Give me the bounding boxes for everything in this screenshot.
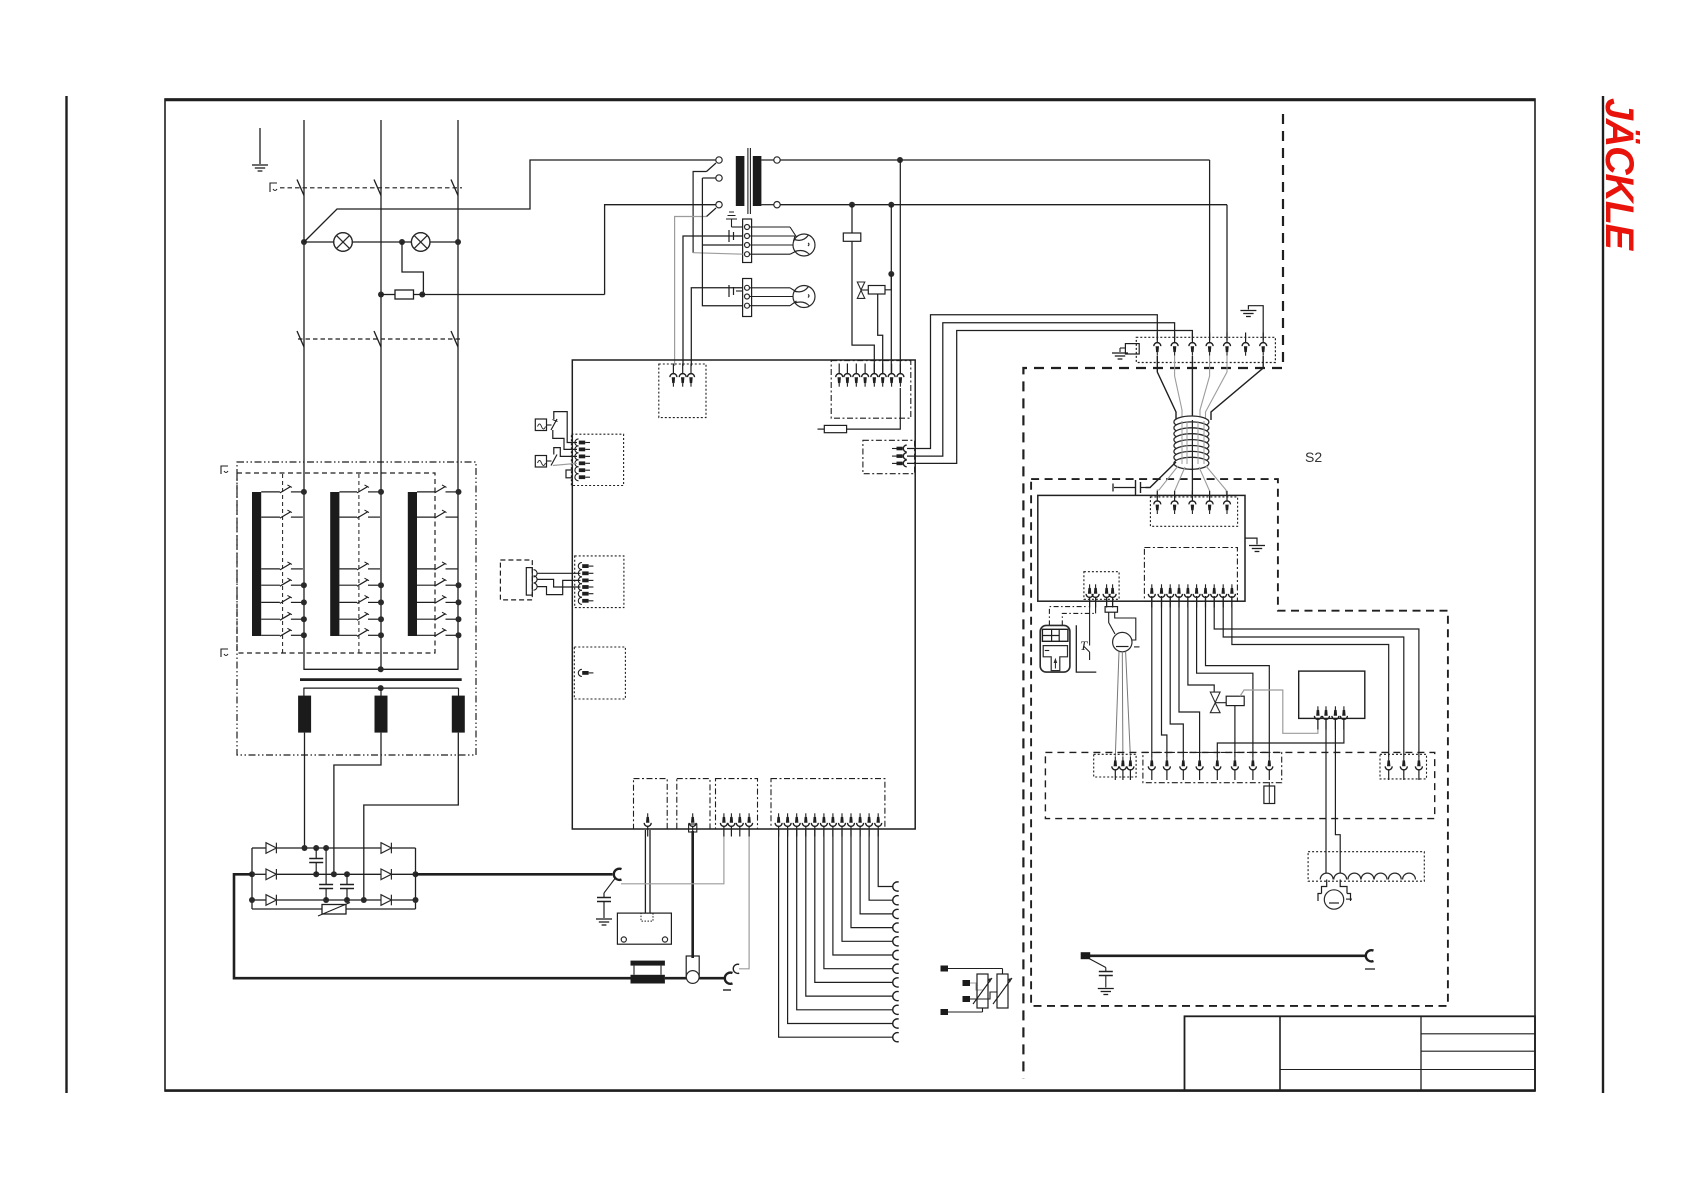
T1 unit 1 tap 4 lever bbox=[280, 580, 291, 587]
output hook terminal + bbox=[614, 869, 622, 880]
hook terminal X10-10 bbox=[893, 909, 899, 918]
wire X13-1 down bbox=[1151, 596, 1153, 757]
fan terminal strip 1 bbox=[743, 219, 752, 263]
B2 lead bbox=[547, 460, 552, 462]
node T1 unit 1 tap 7 bbox=[301, 632, 307, 638]
wire lamp row to control bbox=[304, 160, 716, 242]
T1 unit 3 tap 1 wire bbox=[417, 491, 435, 493]
harness bottom wire 5 bbox=[1206, 466, 1227, 498]
wire X3 pin3 to S2 connector bbox=[907, 331, 1192, 464]
wire X3 pin1 to S2 connector bbox=[907, 315, 1157, 449]
connector X4 pin bbox=[575, 439, 590, 446]
wire X13-7 down bbox=[1206, 596, 1270, 757]
control bus 24V bbox=[780, 159, 1209, 161]
motor housing right bbox=[1340, 880, 1347, 894]
wire contact1 lever to fan supply bbox=[693, 172, 706, 253]
node rect bot right bbox=[413, 897, 419, 903]
X11 ground left bbox=[1120, 347, 1125, 349]
X11 pin7 ground wire bbox=[1248, 306, 1263, 340]
torch strip pin bbox=[1266, 757, 1273, 780]
fan M1 bbox=[793, 234, 815, 256]
T1 unit 3 tap 7 wire bbox=[417, 634, 435, 636]
motor terminal tick bbox=[1346, 898, 1352, 900]
connector X14 pin bbox=[1109, 584, 1116, 607]
connector X8 pin bbox=[689, 813, 696, 836]
connector X13 pin bbox=[1167, 584, 1174, 607]
signal wire X10-10 bbox=[860, 830, 893, 914]
current sensor box bbox=[617, 913, 671, 944]
T1 unit 2 tap 6 link bbox=[368, 618, 380, 620]
torch shield capacitor bbox=[1105, 968, 1107, 972]
wire resistor to X2 pin5 bbox=[852, 241, 874, 374]
connector X2 pin bbox=[871, 364, 878, 387]
frame bottom edge bbox=[165, 1089, 1535, 1091]
T1 unit 3 tap 7 link bbox=[446, 634, 458, 636]
node lamp row mid bbox=[399, 239, 405, 245]
motor housing bracket bbox=[1318, 894, 1322, 902]
node lamp row L3 bbox=[455, 239, 461, 245]
T1 unit 1 tap 2 link bbox=[291, 516, 303, 518]
node T1 unit 2 tap 7 bbox=[378, 632, 384, 638]
secondary star rail bbox=[303, 687, 458, 689]
node T1 unit 2 tap 6 bbox=[378, 616, 384, 622]
harness bottom wire 1 bbox=[1157, 466, 1178, 498]
sensor pad left bbox=[621, 937, 626, 942]
strip2 contact bbox=[745, 303, 750, 308]
connector X14 pin bbox=[1103, 584, 1110, 607]
torch board connector X12 dotted box bbox=[1150, 497, 1237, 526]
wire fuse row to transformer contact bbox=[605, 205, 716, 295]
torch cable terminal square bbox=[1081, 952, 1091, 959]
T1 unit 1 tap 2 wire bbox=[261, 516, 280, 518]
T1 unit 2 tap 2 link bbox=[368, 516, 380, 518]
wire secondary3 to rectifier bbox=[364, 733, 459, 900]
thick positive output wire bbox=[416, 873, 613, 876]
T1 unit 1 tap 3 link bbox=[291, 568, 303, 570]
resistor R3 on board bbox=[818, 428, 825, 430]
connector X5 pin bbox=[578, 577, 593, 584]
connector X2 pin bbox=[879, 364, 886, 387]
connector X12 pin bbox=[1206, 491, 1213, 514]
motor housing left bbox=[1322, 880, 1327, 894]
control transformer left contact 3 bbox=[716, 202, 722, 208]
secondary stub 3 bbox=[458, 688, 460, 696]
connector X11 pin bbox=[1206, 333, 1213, 356]
capacitor C2 bbox=[325, 848, 327, 885]
connector X6 pin bbox=[578, 669, 593, 676]
T1 unit 3 tap 6 link bbox=[446, 618, 458, 620]
rectifier right rail bbox=[415, 848, 417, 909]
connector X10 pin bbox=[857, 813, 864, 836]
harness connector X11 dotted box bbox=[1136, 337, 1275, 362]
rectifier bottom rail bbox=[252, 899, 266, 901]
resistor R2 bbox=[843, 233, 861, 241]
T1 unit 1 tap 6 lever bbox=[280, 614, 291, 621]
wire X3 pin2 to S2 connector bbox=[907, 323, 1175, 456]
T1 unit 1 tap 5 link bbox=[291, 601, 303, 603]
title block row line b bbox=[1421, 1050, 1535, 1052]
T1 unit 1 tap 6 wire bbox=[261, 618, 280, 620]
tap switch bracket bottom bbox=[221, 649, 228, 657]
transformer right contact top bbox=[774, 157, 780, 163]
varistor terminal sq4 bbox=[941, 1009, 949, 1015]
lamp H1 bbox=[334, 233, 353, 252]
ground torch shield bbox=[1098, 989, 1114, 995]
connector X13 pin bbox=[1148, 584, 1155, 607]
node fuse row right bbox=[419, 292, 425, 298]
sensor signal pair wire b bbox=[649, 830, 651, 913]
node rect mid left bbox=[249, 871, 255, 877]
connector X13 pin bbox=[1184, 584, 1191, 607]
wire feed motor M3 bbox=[1324, 890, 1343, 909]
node rect mid c3 bbox=[344, 871, 350, 877]
X4 jumper block bbox=[566, 470, 572, 478]
heater element dotted box bbox=[1308, 852, 1424, 882]
B1 lever serif bbox=[553, 420, 558, 422]
wire bus1 into X11 pin4 bbox=[1209, 160, 1211, 340]
connector X2 pin bbox=[888, 364, 895, 387]
wire secondary bottom stub bbox=[761, 204, 773, 206]
T1 unit 1 tap 1 lever bbox=[280, 486, 291, 493]
electrode wire ferrule bbox=[689, 824, 697, 832]
wire X13-6 down bbox=[1197, 596, 1253, 757]
gas valve Y1 bowtie bbox=[857, 282, 865, 298]
lamp row wire bbox=[304, 241, 458, 243]
connector X12 pin bbox=[1171, 491, 1178, 514]
torch strip pin bbox=[1249, 757, 1256, 780]
B1 lead bbox=[547, 424, 552, 426]
ground at X11 pin7 bbox=[1240, 311, 1256, 317]
T1 unit 3 tap 5 link bbox=[446, 601, 458, 603]
node bus2 x852 bbox=[849, 202, 855, 208]
node T1 unit 3 tap 5 bbox=[456, 599, 462, 605]
connector X9 pin bbox=[736, 813, 743, 836]
rectifier bottom return bbox=[252, 908, 322, 910]
page frame border bbox=[165, 99, 1535, 1091]
hook terminal X10-8 bbox=[893, 937, 899, 946]
T1 unit 3 tap 2 wire bbox=[417, 516, 435, 518]
poti connector pin bbox=[1112, 757, 1119, 780]
connector X4 pin bbox=[575, 460, 590, 467]
connector X3 pin 1 bbox=[892, 445, 907, 452]
signal wire X10-5 bbox=[815, 830, 893, 982]
harness wire 2 bbox=[1175, 356, 1182, 420]
T1 unit 2 tap 4 wire bbox=[339, 584, 357, 586]
transformer T1 primary winding bar 3 bbox=[408, 492, 417, 636]
wire X13-8 to plug3 bbox=[1214, 596, 1419, 757]
connector X10 pin bbox=[866, 813, 873, 836]
harness bottom wire 3 bbox=[1191, 465, 1193, 498]
capacitor C3 bbox=[346, 874, 348, 884]
trigger plug shape bbox=[1043, 646, 1067, 671]
connector X13 pin bbox=[1158, 584, 1165, 607]
signal wire X10-7 bbox=[833, 830, 893, 955]
connector X13 pin bbox=[1228, 584, 1235, 607]
tap switch bracket top bbox=[221, 466, 228, 474]
wire X14 pin3 to trimmer bbox=[1106, 598, 1108, 607]
connector X9 pin bbox=[746, 813, 753, 836]
heater element coils bbox=[1320, 873, 1333, 879]
hook terminal X10-12 bbox=[893, 882, 899, 891]
B1 switch lever bbox=[551, 419, 557, 430]
wire X13-2 down bbox=[1162, 596, 1167, 757]
torch strip pin bbox=[1163, 757, 1170, 780]
torch valve Y2 bowtie bbox=[1210, 692, 1220, 713]
wire X14 pin4 to trimmer bbox=[1112, 598, 1114, 607]
secondary winding bar 1 bbox=[298, 696, 311, 733]
title block outline bbox=[1185, 1016, 1536, 1090]
hook terminal X10-9 bbox=[893, 923, 899, 932]
connector X2 pin bbox=[836, 364, 843, 387]
connector X12 pin bbox=[1224, 491, 1231, 514]
wire mid branch to fuse row bbox=[402, 242, 423, 295]
coil inner wires bbox=[1181, 421, 1183, 464]
transformer core bar bbox=[300, 678, 462, 681]
strip1 contact bbox=[745, 252, 750, 257]
node rect top c2 bbox=[323, 845, 329, 851]
shunt link right bbox=[660, 966, 662, 975]
wire X14 pin2 bbox=[1095, 598, 1097, 613]
T1 unit 1 tap 6 link bbox=[291, 618, 303, 620]
plug connector pin bbox=[1400, 757, 1407, 780]
secondary winding bar 3 bbox=[452, 696, 465, 733]
connector X1 pin 1 bbox=[670, 364, 677, 387]
connector X11 pin bbox=[1224, 333, 1231, 356]
wire X13-10 to plug1 bbox=[1232, 596, 1389, 757]
wire X13-9 to plug2 bbox=[1223, 596, 1404, 757]
heater feed wire b bbox=[1335, 718, 1340, 873]
signal wire X10-2 bbox=[788, 830, 893, 1024]
connector X2 pin bbox=[897, 364, 904, 387]
wire trimmer loop to wiper bbox=[1115, 612, 1136, 640]
plug connector dotted box bbox=[1380, 754, 1427, 779]
connector X6 dotted box bbox=[574, 647, 625, 699]
title block row line c bbox=[1280, 1069, 1535, 1071]
title block divider 2 bbox=[1420, 1016, 1422, 1090]
B2 switch lever bbox=[551, 455, 557, 466]
connector X11 pin bbox=[1189, 333, 1196, 356]
gray wire B2 to X4 pin4 bbox=[553, 463, 577, 465]
main switch S0 dashed link bbox=[280, 187, 462, 189]
switch lever bbox=[1084, 646, 1090, 652]
phase wire L1 bbox=[303, 120, 305, 669]
main switch S0 bracket bbox=[270, 183, 277, 192]
electrode thick wire bbox=[691, 831, 694, 958]
wire switch to bracket foot bbox=[1089, 652, 1091, 660]
node T1 unit 3 tap 4 bbox=[456, 582, 462, 588]
shunt bar upper bbox=[631, 961, 665, 966]
wire strip1 pin2 feed bbox=[683, 236, 743, 366]
switch row2 pole L3 bbox=[451, 331, 458, 347]
control transformer left contact 2 bbox=[716, 175, 722, 181]
signal wire X10-3 bbox=[797, 830, 893, 1010]
T1 unit 3 tap 3 wire bbox=[417, 568, 435, 570]
signal wire X10-4 bbox=[806, 830, 893, 996]
torch board ground bbox=[1245, 538, 1257, 544]
strip1 contact bbox=[745, 225, 750, 230]
connector X2 pin bbox=[844, 364, 851, 387]
T1 unit 2 tap 5 link bbox=[368, 601, 380, 603]
T1 unit 2 tap 5 wire bbox=[339, 601, 357, 603]
harness wire 1 bbox=[1157, 356, 1176, 420]
switch pole L2 bbox=[374, 180, 381, 196]
signal wire X10-9 bbox=[851, 830, 893, 928]
connector X2 pin bbox=[862, 364, 869, 387]
node T1 unit 3 tap 7 bbox=[456, 632, 462, 638]
connector X10 dotted box bbox=[771, 779, 885, 829]
T1 unit 3 tap 3 link bbox=[446, 568, 458, 570]
torch switch bracket bbox=[1076, 625, 1096, 672]
node rect mid right bbox=[413, 871, 419, 877]
node T1 unit 2 tap 5 bbox=[378, 599, 384, 605]
sub board (wire feed control) bbox=[1299, 671, 1365, 718]
transformer T1 primary winding bar 1 bbox=[252, 492, 261, 636]
torch board connector X14 dotted box bbox=[1084, 572, 1119, 600]
gray sense wire a bbox=[621, 830, 724, 884]
transformer T1 primary winding bar 2 bbox=[330, 492, 339, 636]
shield cap terminal tick bbox=[1112, 484, 1114, 492]
connector X13 pin bbox=[1202, 584, 1209, 607]
torch cable shield cap wire bbox=[1089, 959, 1106, 968]
connector X9 pin bbox=[728, 813, 735, 836]
wire trimmer to poti bbox=[1109, 612, 1115, 634]
rectifier mid rail bbox=[252, 873, 266, 875]
connector X10 pin bbox=[820, 813, 827, 836]
varistor wiring bbox=[948, 968, 1003, 970]
torch board outline bbox=[1038, 495, 1245, 601]
sensor pad right bbox=[662, 937, 667, 942]
hook terminal X10-4 bbox=[893, 992, 899, 1001]
strip pin8 fuse bbox=[1268, 782, 1270, 786]
connector X12 pin bbox=[1189, 491, 1196, 514]
connector X10 pin bbox=[811, 813, 818, 836]
wire fuse row bbox=[381, 294, 395, 296]
T1 unit 2 tap 2 lever bbox=[357, 512, 368, 518]
poti trimmer block bbox=[1105, 607, 1117, 613]
wire hook to shield cap bbox=[604, 879, 615, 894]
connector X3 dotted box bbox=[863, 440, 915, 473]
phase wire L3 bbox=[457, 120, 459, 669]
fan M2 bbox=[793, 286, 815, 308]
tap coupling dashed line 2 bbox=[358, 474, 360, 653]
varistor RV1 bbox=[322, 905, 346, 915]
strip2 contact bbox=[745, 294, 750, 299]
T1 unit 1 tap 4 link bbox=[291, 584, 303, 586]
node primary star bbox=[378, 666, 384, 672]
varistor RV2 bbox=[977, 974, 988, 1008]
control transformer left contact 1 bbox=[716, 157, 722, 163]
sub board pin bbox=[1314, 706, 1321, 729]
harness shield drain wire bbox=[1146, 462, 1177, 488]
shunt link left bbox=[633, 966, 635, 975]
potentiometer R10 bbox=[1113, 632, 1132, 651]
diode D3b bbox=[381, 895, 391, 906]
node rect mid c1 bbox=[313, 871, 319, 877]
wire bus1 down to X2 pin8 bbox=[899, 160, 901, 374]
connector X10 pin bbox=[802, 813, 809, 836]
wire valve to node bbox=[885, 274, 891, 290]
T1 unit 1 tap 3 lever bbox=[280, 563, 291, 570]
switch row2 pole L1 bbox=[297, 331, 304, 347]
node T1 unit 2 tap 4 bbox=[378, 582, 384, 588]
hook terminal X10-3 bbox=[893, 1005, 899, 1014]
connector X5 pin bbox=[578, 583, 593, 590]
valve stem bbox=[861, 289, 868, 291]
torch strip pin bbox=[1231, 757, 1238, 780]
connector X10 pin bbox=[793, 813, 800, 836]
secondary stub 2 bbox=[380, 688, 382, 696]
T1 unit 3 tap 4 lever bbox=[435, 580, 446, 587]
S2 harness boundary dashed bbox=[1023, 114, 1283, 1079]
node T1 unit 3 tap 1 bbox=[456, 489, 462, 495]
remote connector dashed box bbox=[500, 560, 532, 600]
connector X10 pin bbox=[848, 813, 855, 836]
gray sense hook bbox=[733, 964, 739, 973]
wire X14 pin1 to switch bbox=[1089, 598, 1091, 646]
connector X11 pin bbox=[1154, 333, 1161, 356]
T1 unit 3 tap 1 lever bbox=[435, 486, 446, 493]
gray link to strip1 pin4 bbox=[693, 253, 743, 255]
connector X13 pin bbox=[1193, 584, 1200, 607]
remote socket 2 bbox=[534, 576, 538, 583]
T1 unit 1 tap 3 wire bbox=[261, 568, 280, 570]
poti outer tick bbox=[1134, 646, 1140, 648]
signal wire X10-12 bbox=[878, 830, 893, 887]
T1 unit 1 tap 7 link bbox=[291, 634, 303, 636]
resistor feed wire bbox=[851, 205, 853, 233]
connector X5 pin bbox=[578, 597, 593, 604]
node T1 unit 1 tap 4 bbox=[301, 582, 307, 588]
diode D1a bbox=[266, 843, 276, 854]
poti wiper wires gray bbox=[1115, 652, 1119, 758]
connector X10 pin bbox=[875, 813, 882, 836]
wire X13-4 down bbox=[1179, 596, 1200, 757]
hook terminal X10-6 bbox=[893, 964, 899, 973]
wire bus2 into X11 pin5 bbox=[1226, 205, 1228, 340]
torch assembly dashed box bbox=[1031, 479, 1448, 1006]
frame top thick edge bbox=[165, 98, 1535, 101]
secondary winding bar 2 bbox=[375, 696, 388, 733]
connector X11 pin bbox=[1171, 333, 1178, 356]
T1 unit 2 tap 3 wire bbox=[339, 568, 357, 570]
trigger contact grid bbox=[1042, 629, 1068, 641]
svg-text:S2: S2 bbox=[1305, 449, 1322, 465]
remote socket 1 bbox=[534, 570, 538, 577]
varistor terminal sq2 bbox=[963, 980, 971, 986]
wire secondary top stub bbox=[761, 159, 773, 161]
torch valve Y2 coil bbox=[1226, 696, 1244, 705]
connector X13 pin bbox=[1176, 584, 1183, 607]
torch strip pin bbox=[1196, 757, 1203, 780]
sensor top pin dotted bbox=[641, 913, 653, 921]
contact2 wire bbox=[702, 177, 715, 179]
node rect bot left bbox=[249, 897, 255, 903]
connector X10 pin bbox=[775, 813, 782, 836]
tap coupling dashed line 1 bbox=[282, 474, 284, 653]
connector X4 pin bbox=[575, 453, 590, 460]
wire B1 low to X4 pin2 bbox=[553, 430, 577, 449]
gas valve Y1 coil bbox=[868, 286, 885, 295]
control transformer secondary bar bbox=[753, 156, 762, 206]
node T1 unit 1 tap 5 bbox=[301, 599, 307, 605]
node lamp row L1 bbox=[301, 239, 307, 245]
varistor terminal sq1 bbox=[941, 966, 949, 972]
rectifier top rail bbox=[252, 847, 266, 849]
node T1 unit 1 tap 1 bbox=[301, 489, 307, 495]
T1 unit 3 tap 6 wire bbox=[417, 618, 435, 620]
connector X2 pin bbox=[853, 364, 860, 387]
wire X13-3 down bbox=[1170, 596, 1183, 757]
